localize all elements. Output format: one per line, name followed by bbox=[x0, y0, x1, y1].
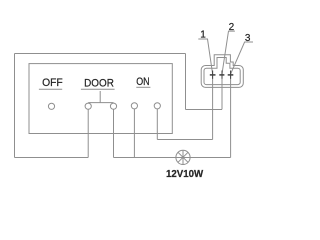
label OFF bbox=[39, 77, 63, 89]
label ON bbox=[136, 76, 150, 88]
wire pin1 drop bbox=[212, 70, 214, 139]
leader line 2 with underline bbox=[222, 31, 235, 74]
wire riser to DOOR-left terminal bbox=[87, 109, 89, 157]
pin 2 bbox=[219, 71, 224, 79]
svg-text:OFF: OFF bbox=[42, 77, 63, 89]
svg-text:2: 2 bbox=[229, 22, 235, 33]
wire from DOOR-right terminal down bbox=[113, 109, 115, 157]
pin 1 bbox=[210, 71, 216, 79]
wire from ON-left terminal down bbox=[133, 109, 135, 158]
wire left side (pin2 net) bbox=[14, 54, 16, 158]
DOOR bracket bbox=[88, 91, 113, 103]
wire jog to pin2 bbox=[186, 109, 223, 111]
terminal ON left bbox=[131, 103, 137, 109]
wire lamp right to pin3 bbox=[190, 157, 231, 159]
svg-text:3: 3 bbox=[245, 33, 251, 44]
wire through lamp bbox=[176, 157, 190, 159]
label DOOR bbox=[81, 77, 115, 89]
wire right drop (pin2 net) bbox=[185, 54, 187, 110]
pin 3 bbox=[228, 71, 234, 79]
connector housing outer bbox=[201, 55, 243, 88]
svg-text:ON: ON bbox=[136, 76, 149, 88]
leader line 3 with underline bbox=[231, 42, 253, 74]
terminal OFF bbox=[48, 103, 54, 109]
wire bottom left run bbox=[15, 157, 89, 159]
leader line 1 with underline bbox=[198, 39, 212, 74]
wire bottom to lamp left bbox=[114, 157, 176, 159]
wire from ON-right terminal down bbox=[156, 109, 158, 140]
svg-text:1: 1 bbox=[200, 30, 206, 41]
terminal ON right bbox=[154, 103, 160, 109]
lamp 12V10W bbox=[176, 150, 190, 164]
switch body rectangle bbox=[29, 64, 172, 134]
svg-text:12V10W: 12V10W bbox=[166, 168, 203, 180]
terminal DOOR right bbox=[110, 103, 116, 109]
svg-text:DOOR: DOOR bbox=[84, 77, 114, 89]
wire pin3 drop bbox=[230, 70, 232, 157]
connector housing inner bbox=[204, 58, 240, 85]
wire pin2 drop bbox=[221, 70, 223, 109]
wire top (pin2 net, top run) bbox=[15, 53, 186, 55]
terminal DOOR left bbox=[85, 103, 91, 109]
wire to pin1 run bbox=[157, 139, 212, 141]
